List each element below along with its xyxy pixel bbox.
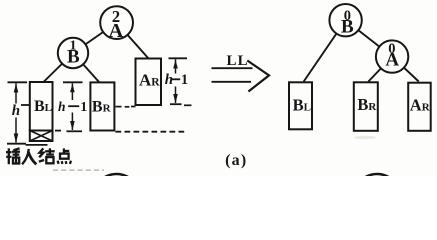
partial circle of figure (b), bottom right (354, 174, 400, 220)
wire edge A1-B1 (73, 23, 117, 53)
svg-text:1: 1 (80, 100, 87, 115)
svg-text:(a): (a) (225, 152, 247, 169)
partial circle of figure (b), bottom left (94, 174, 140, 220)
caption 插入结点 (inserted node), drawn strokes (6, 148, 71, 164)
char dian 点 (63, 148, 65, 153)
char cha 插 (8, 148, 10, 164)
wire edge B1-BL1 (44, 53, 73, 82)
LL double arrow (212, 61, 270, 92)
wire edge A2-BR2 (368, 57, 392, 82)
node A1 (balance factor 2) (100, 6, 133, 42)
dash right of measure (184, 104, 192, 106)
extra short line under crossed box (26, 144, 48, 146)
svg-text:A: A (108, 20, 123, 42)
faint smudge under BR2 (354, 136, 376, 140)
wire edge B1-BR1 (73, 53, 99, 82)
subtree box BL2 (289, 82, 312, 129)
inserted node crossed box (30, 131, 53, 142)
char ru 入 (22, 149, 29, 164)
wire edge B2-BL2 (304, 20, 346, 81)
char jie 结 (39, 148, 43, 157)
wire edge A2-AR2 (392, 57, 419, 82)
short dash (bottom of BL1 level) (55, 130, 61, 132)
svg-text:B: B (341, 17, 354, 38)
node B2 (balance factor 0) (329, 4, 361, 38)
subtree box AR1 (136, 59, 162, 106)
svg-text:h: h (58, 99, 66, 114)
svg-text:h: h (12, 103, 20, 119)
measure h (left) (7, 82, 27, 143)
wire edge A1-AR1 (117, 23, 149, 59)
subtree box BR1 (90, 82, 114, 130)
node A2 (balance factor 0) (376, 40, 408, 72)
svg-text:B: B (67, 46, 80, 67)
dash link to BL1 (21, 104, 30, 106)
faint show-through dashed line from figure (b) (53, 169, 104, 171)
subtree box AR2 (408, 83, 431, 131)
svg-text:1: 1 (181, 72, 188, 88)
measure h-1 (right of AR1) (169, 58, 188, 104)
subtree box BR2 (354, 82, 378, 131)
dashed level line (bottom of AR1) (116, 106, 136, 108)
svg-text:A: A (385, 50, 399, 71)
node B1 (balance factor 1) (58, 38, 88, 68)
wire edge B2-A2 (346, 20, 393, 56)
subtree box BL1 (30, 82, 53, 131)
svg-text:LL: LL (227, 53, 249, 69)
measure h-1 (middle) (63, 82, 83, 131)
long dashed line (bottom level, right of BR1) (116, 131, 187, 133)
